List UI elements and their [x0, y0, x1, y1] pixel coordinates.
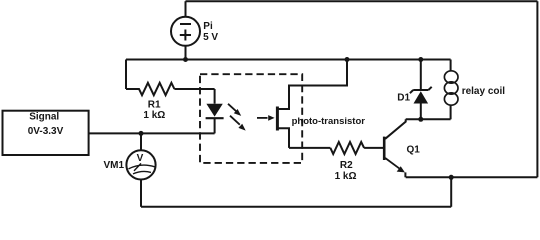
node junction Pi bottom [183, 57, 188, 62]
wire emitter to R2 [289, 147, 330, 149]
LED light arrow 1 [228, 104, 241, 116]
svg-text:Signal: Signal [29, 112, 59, 123]
wire R1 to LED [174, 88, 214, 90]
svg-text:Q1: Q1 [407, 144, 421, 155]
node junction VM1 tap [139, 131, 144, 136]
wire emitter rail [406, 176, 538, 178]
voltage source Pi [171, 1, 200, 59]
diode D1 zener [410, 60, 432, 120]
voltmeter VM1 [126, 133, 155, 206]
wire top rail [186, 0, 538, 2]
signal source box [3, 111, 89, 155]
svg-text:D1: D1 [397, 93, 410, 104]
wire collector rail [406, 118, 451, 120]
wire right side [536, 1, 538, 177]
wire left drop [125, 60, 127, 90]
LED (optocoupler emitter) [206, 104, 224, 119]
svg-text:Pi: Pi [203, 21, 213, 32]
wire mid rail [126, 59, 451, 61]
wire R2 to Q1 base [364, 147, 383, 149]
svg-text:photo-transistor: photo-transistor [292, 116, 366, 127]
wire LED anode drop [214, 89, 216, 104]
svg-text:R2: R2 [340, 160, 353, 171]
LED light arrow 2 [230, 116, 246, 131]
node junction D1 bottom [418, 117, 423, 122]
resistor R1 [126, 83, 174, 95]
svg-text:0V-3.3V: 0V-3.3V [28, 126, 64, 137]
wire LED cathode drop [214, 118, 216, 133]
svg-text:5 V: 5 V [203, 32, 218, 43]
relay coil inductor [444, 60, 458, 120]
svg-text:1 kΩ: 1 kΩ [143, 110, 165, 121]
wire signal rail [89, 132, 215, 134]
wire bottom rail [141, 206, 451, 208]
svg-text:V: V [137, 153, 144, 164]
node junction D1 top [418, 57, 423, 62]
node junction emitter rail [449, 175, 454, 180]
node junction phototransistor collector [345, 57, 350, 62]
phototransistor (optocoupler detector) [257, 60, 347, 148]
wire bottom riser [450, 177, 452, 207]
svg-text:1 kΩ: 1 kΩ [335, 171, 357, 182]
svg-text:relay coil: relay coil [462, 86, 506, 97]
resistor R2 [330, 142, 364, 154]
transistor Q1 [384, 119, 406, 177]
svg-text:VM1: VM1 [104, 160, 125, 171]
svg-text:R1: R1 [148, 99, 161, 110]
optocoupler package dashed box [200, 74, 302, 163]
